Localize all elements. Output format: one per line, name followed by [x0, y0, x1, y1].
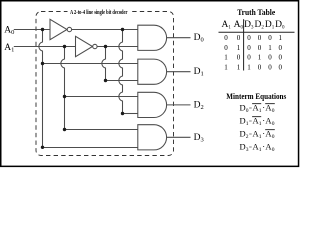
svg-text:D: D: [240, 128, 246, 138]
svg-text:0: 0: [237, 34, 241, 42]
svg-text:0: 0: [224, 34, 228, 42]
svg-text:0: 0: [272, 134, 275, 140]
svg-text:0: 0: [258, 34, 262, 42]
svg-text:0: 0: [272, 147, 275, 153]
svg-text:0: 0: [268, 63, 272, 71]
svg-text:0: 0: [279, 63, 283, 71]
svg-text:0: 0: [272, 108, 275, 114]
svg-text:1: 1: [268, 44, 272, 52]
svg-text:D: D: [240, 141, 246, 151]
svg-text:1: 1: [258, 54, 262, 62]
svg-text:1: 1: [237, 44, 241, 52]
svg-text:0: 0: [268, 54, 272, 62]
svg-text:0: 0: [258, 44, 262, 52]
svg-text:1: 1: [237, 63, 241, 71]
svg-text:Truth Table: Truth Table: [237, 8, 275, 17]
svg-text:0: 0: [272, 121, 275, 127]
svg-text:0: 0: [224, 44, 228, 52]
svg-text:1: 1: [247, 63, 251, 71]
svg-text:0: 0: [247, 44, 251, 52]
svg-text:0: 0: [247, 34, 251, 42]
svg-text:0: 0: [279, 44, 283, 52]
svg-text:0: 0: [279, 54, 283, 62]
svg-text:D: D: [240, 102, 246, 112]
svg-text:A 2-to-4 line single bit decod: A 2-to-4 line single bit decoder: [70, 10, 128, 16]
svg-text:0: 0: [247, 54, 251, 62]
svg-text:0: 0: [258, 63, 262, 71]
svg-text:Minterm Equations: Minterm Equations: [226, 91, 287, 101]
svg-text:0: 0: [268, 34, 272, 42]
svg-text:D: D: [240, 115, 246, 125]
svg-text:1: 1: [224, 54, 228, 62]
svg-text:0: 0: [237, 54, 241, 62]
svg-text:1: 1: [279, 34, 283, 42]
svg-text:1: 1: [224, 63, 228, 71]
